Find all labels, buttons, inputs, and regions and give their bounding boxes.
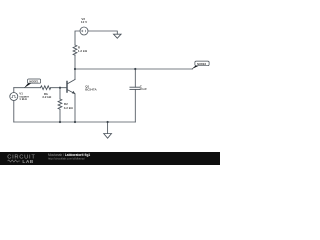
label R1 value 1.2 k <box>78 49 88 53</box>
Q1 emitter diagonal <box>67 90 75 94</box>
svg-text:3.2 kΩ: 3.2 kΩ <box>42 95 52 99</box>
svg-text:1 kHz: 1 kHz <box>19 97 27 101</box>
svg-text:BC547A: BC547A <box>85 88 97 92</box>
label Q1 type BC547A <box>85 88 97 92</box>
label Rb name <box>44 92 48 96</box>
Q1 collector diagonal <box>67 80 75 85</box>
junction node base-R2 <box>59 87 61 89</box>
capacitor C plate 2 <box>130 88 140 90</box>
label Q1 name <box>85 84 89 88</box>
V2 minus sign <box>84 30 86 32</box>
resistor Rb zigzag <box>41 86 51 90</box>
junction node capacitor top <box>134 68 136 70</box>
wire R2 bottom lead <box>59 110 61 123</box>
label C value 10 nF <box>140 87 148 91</box>
wire collector node horizontal <box>75 68 193 70</box>
svg-text:LAB: LAB <box>22 159 33 165</box>
label V1 type square <box>19 94 29 98</box>
wire bottom rail <box>14 121 136 123</box>
node NODE1 flag <box>24 79 41 88</box>
footer bar <box>0 152 220 165</box>
junction node R2 bottom <box>59 121 61 123</box>
CircuitLab logo LAB <box>22 159 33 165</box>
voltage source V2 circle <box>80 27 88 35</box>
wire V2 left lead to R1 top <box>75 31 80 45</box>
label V2 name <box>81 17 85 21</box>
svg-text:1.2 kΩ: 1.2 kΩ <box>78 49 88 53</box>
junction node collector-R1 <box>74 68 76 70</box>
node NODE2 flag <box>191 61 209 69</box>
svg-text:3.2 kΩ: 3.2 kΩ <box>64 106 74 110</box>
wire R1 bottom to collector node <box>74 55 76 69</box>
junction node emitter bottom <box>74 121 76 123</box>
wire Rb to base bar <box>51 87 68 89</box>
footer url line <box>48 156 85 160</box>
label C name <box>140 85 143 89</box>
wire V1 bottom lead <box>13 101 15 123</box>
svg-text:10 nF: 10 nF <box>140 87 148 91</box>
label V1 value 1 kHz <box>19 97 27 101</box>
label R1 name <box>78 45 81 49</box>
capacitor C plate 1 <box>130 86 140 88</box>
resistor R1 zigzag <box>73 45 77 55</box>
junction node ground bottom <box>107 121 109 123</box>
label NODE1 text <box>29 79 39 83</box>
label R2 name <box>64 102 68 106</box>
label Rb value 3.2 k <box>42 95 52 99</box>
label V2 value 12 V <box>81 20 87 24</box>
wire V1 top lead <box>13 88 15 93</box>
wire V1 top to base (left segment) <box>14 87 41 89</box>
ground top right <box>114 34 122 38</box>
footer title line <box>48 153 90 157</box>
CircuitLab logo squiggle <box>8 160 21 162</box>
label NODE2 text <box>197 62 207 66</box>
svg-text:http://circuitlab.com/c8dkamp/: http://circuitlab.com/c8dkamp/ <box>48 156 85 160</box>
wire V2 right lead to top ground <box>88 31 117 34</box>
voltage source V1 circle <box>10 93 18 101</box>
ground bottom triangle <box>104 134 112 139</box>
V1 square-wave glyph <box>12 95 17 97</box>
label R2 value 3.2 k <box>64 106 74 110</box>
Q1 collector vertical wire <box>74 69 76 80</box>
svg-text:NODE1: NODE1 <box>29 79 39 83</box>
wire R2 top lead <box>59 88 61 99</box>
transistor Q1 base bar <box>66 82 68 93</box>
ground bottom stem <box>107 122 109 134</box>
V2 plus sign <box>81 30 83 32</box>
capacitor C bottom lead <box>134 89 136 122</box>
label V1 name <box>19 92 23 96</box>
svg-text:NODE2: NODE2 <box>197 62 207 66</box>
capacitor C top lead <box>134 69 136 87</box>
Q1 emitter vertical wire to bottom rail <box>74 94 76 122</box>
svg-text:12 V: 12 V <box>81 20 87 24</box>
resistor R2 zigzag <box>58 99 62 109</box>
CircuitLab logo CIRCUIT <box>7 155 35 161</box>
Q1 emitter arrow <box>72 91 75 94</box>
